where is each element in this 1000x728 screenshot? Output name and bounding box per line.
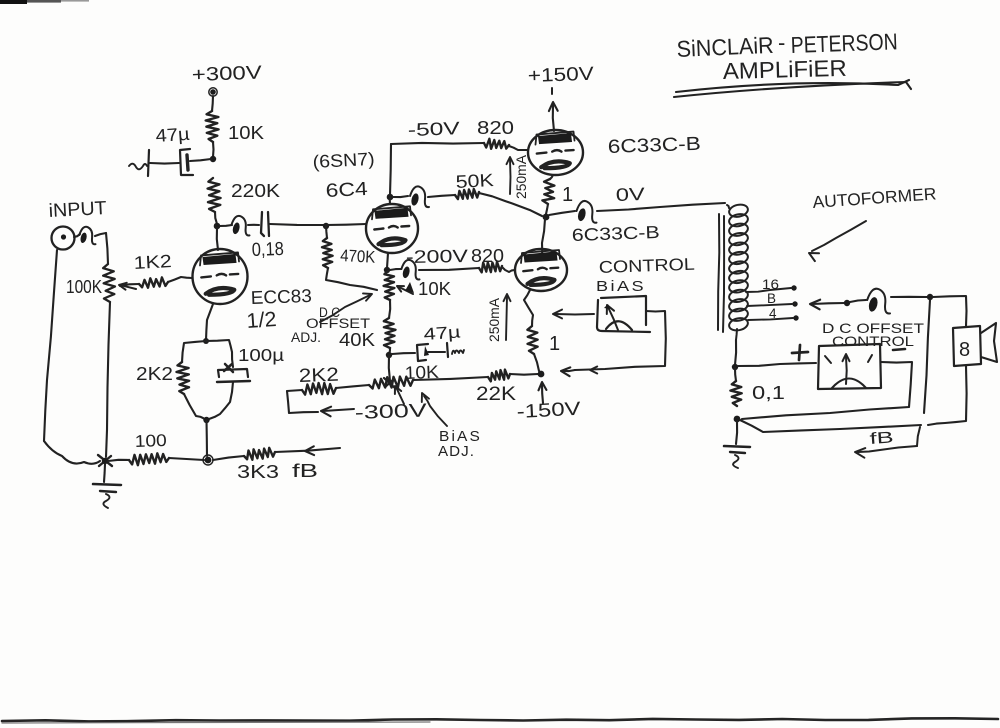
svg-text:PETERSON: PETERSON	[790, 28, 898, 58]
svg-text:AMPLiFiER: AMPLiFiER	[722, 55, 847, 84]
svg-text:1/2: 1/2	[246, 308, 278, 333]
node 6C4 anode	[387, 194, 394, 201]
junction ground bus X	[98, 455, 112, 466]
wire 22K to node	[510, 373, 538, 376]
svg-text:6C33C-B: 6C33C-B	[607, 134, 701, 158]
wire to speaker top	[933, 296, 967, 326]
wire 6C4 anode up	[389, 197, 391, 204]
svg-text:fB: fB	[869, 429, 894, 448]
wire cathode node to bus	[205, 420, 208, 456]
svg-text:iNPUT: iNPUT	[48, 198, 107, 222]
wire ECC83 cathode	[206, 304, 213, 340]
resistor 50K	[428, 195, 455, 197]
wire pot bottom to ground bus	[106, 302, 110, 457]
dc offset adj arrow	[320, 295, 370, 322]
dc box loop wire	[742, 362, 912, 419]
wire 1 to -150V node	[534, 354, 539, 371]
wire 10K to node	[212, 142, 215, 157]
meter loop wire	[575, 311, 666, 370]
autoformer coil	[728, 203, 749, 218]
svg-text:fB: fB	[292, 461, 318, 481]
tap B	[747, 304, 792, 306]
tube ECC83 V1	[193, 249, 248, 304]
wire +300V to 10K	[212, 96, 213, 111]
wire to 2K2 branch	[182, 341, 206, 362]
node speaker bus 1	[844, 300, 850, 306]
wire 40K node to bus	[389, 355, 390, 381]
svg-text:100: 100	[134, 431, 167, 451]
node 0V	[543, 214, 550, 221]
svg-text:1: 1	[549, 333, 560, 355]
dc offset control box	[818, 344, 881, 389]
tap 16	[746, 288, 791, 292]
wire 820 to lower grid	[502, 267, 515, 272]
resistor 820 lower	[479, 262, 502, 273]
node 6C4 cathode	[384, 267, 390, 273]
wire -50V rail	[391, 143, 484, 144]
plus symbol	[792, 352, 808, 353]
fB arrow right	[917, 427, 920, 446]
wire node to 3K3	[213, 456, 244, 460]
resistor 0,1	[735, 368, 736, 381]
resistor 40K	[384, 318, 396, 348]
wire 10K to 22K	[413, 377, 488, 380]
speaker box	[953, 326, 981, 366]
resistor 220K	[208, 178, 221, 212]
node cathode bottom	[203, 417, 209, 423]
svg-text:-300V: -300V	[354, 400, 427, 424]
svg-text:1: 1	[562, 184, 573, 206]
input jack J1	[52, 227, 75, 250]
potentiometer 10K bias	[369, 377, 413, 389]
potentiometer 10K dc-offset	[384, 271, 395, 300]
svg-text:250mA: 250mA	[514, 155, 529, 199]
autoformer core	[718, 214, 719, 330]
wire autoformer bottom	[735, 340, 736, 365]
wire to dc-offset box plus	[738, 363, 816, 366]
wire 470K to 10K wiper	[326, 268, 377, 290]
tube 6C33C upper V3	[528, 130, 583, 175]
svg-text:CONTROL: CONTROL	[832, 333, 914, 349]
svg-text:-50V: -50V	[407, 118, 460, 140]
control bias meter box	[597, 296, 650, 332]
scan mark bottom edge	[2, 718, 998, 721]
svg-text:8: 8	[959, 339, 970, 361]
svg-text:22K: 22K	[476, 384, 516, 405]
wire input node down to pot	[106, 233, 108, 264]
BIAS ADJ arrow	[424, 396, 447, 426]
autoformer annotation arrow	[812, 221, 866, 251]
node ECC83 anode	[214, 223, 221, 230]
wire 6C4 cathode	[387, 253, 388, 268]
wire 2K2 to 10K	[336, 385, 369, 388]
svg-text:6C33C-B: 6C33C-B	[571, 222, 660, 245]
wire 100 to node	[169, 458, 204, 460]
speaker bus wire	[850, 300, 866, 302]
node autoformer bottom	[732, 364, 738, 370]
svg-text:+150V: +150V	[527, 64, 594, 87]
scan mark top-left	[0, 0, 27, 4]
svg-text:BiAS: BiAS	[439, 429, 482, 445]
svg-text:820: 820	[477, 118, 514, 138]
+300V terminal	[210, 89, 216, 95]
tube 6C4 V2	[366, 204, 418, 253]
svg-text:220K: 220K	[231, 181, 280, 201]
svg-text:2K2: 2K2	[136, 364, 173, 384]
speaker cone	[981, 323, 997, 362]
ground symbol right	[736, 421, 737, 444]
wire anode node to tube	[217, 228, 218, 250]
junction X bias	[384, 378, 395, 388]
wire 0V rail	[549, 211, 575, 215]
speaker bus arrow	[810, 300, 820, 310]
capacitor 47u bypass	[180, 149, 193, 175]
svg-text:470K: 470K	[340, 246, 377, 267]
resistor 1 lower	[527, 326, 537, 354]
resistor 820 upper	[484, 139, 509, 149]
resistor 1 upper	[550, 175, 553, 179]
node cathode split	[203, 338, 209, 344]
wire 2K2 to bottom node	[184, 394, 205, 419]
svg-text:(6SN7): (6SN7)	[312, 149, 375, 172]
svg-text:ADJ.: ADJ.	[438, 444, 475, 460]
svg-text:16: 16	[762, 277, 779, 292]
svg-text:0V: 0V	[615, 184, 645, 205]
svg-text:250mA: 250mA	[487, 298, 502, 342]
svg-text:40K: 40K	[339, 330, 375, 350]
svg-text:100µ: 100µ	[238, 345, 284, 365]
wire jack ground down	[44, 250, 57, 441]
svg-text:10K: 10K	[418, 279, 451, 299]
250mA upper annotation	[509, 160, 512, 194]
feedback line lower	[740, 420, 921, 432]
-150V feed arrow	[542, 384, 543, 403]
svg-text:ECC83: ECC83	[250, 285, 312, 308]
svg-text:CONTROL: CONTROL	[598, 255, 695, 277]
wire 50K to 0V node	[479, 193, 542, 216]
wire 220K to anode node	[215, 212, 217, 224]
ground symbol left	[104, 464, 105, 482]
svg-text:10K: 10K	[228, 123, 264, 143]
coupling cap 0.18	[248, 224, 259, 226]
title underline	[676, 80, 909, 92]
meter arrow to tube	[556, 313, 594, 316]
svg-text:0,1: 0,1	[752, 383, 785, 403]
resistor 2K2 cathode	[177, 362, 190, 394]
resistor 1K2	[139, 277, 168, 287]
node 0,1 bottom	[734, 416, 741, 423]
wire to 0V node	[546, 204, 548, 214]
svg-text:50K: 50K	[455, 170, 494, 192]
svg-text:BiAS: BiAS	[596, 278, 646, 295]
svg-text:6C4: 6C4	[325, 179, 369, 202]
wire anode node right	[220, 225, 232, 226]
wire -300V corner	[287, 391, 318, 413]
resistor 3K3	[244, 448, 275, 460]
svg-text:47µ: 47µ	[155, 124, 190, 146]
minus symbol	[893, 349, 905, 350]
svg-text:4: 4	[769, 306, 777, 321]
wire bus2 down	[924, 300, 930, 413]
node 40K bottom	[386, 352, 392, 358]
node -150V	[538, 371, 545, 378]
svg-text:1K2: 1K2	[133, 251, 172, 273]
wire 50K from anode	[393, 196, 408, 197]
wire -200V rail	[390, 269, 401, 270]
wire 820 to 6C33C grid	[509, 146, 528, 150]
wire jack to top corner	[74, 234, 80, 237]
wire 0V node down	[542, 219, 545, 258]
svg-text:0,18: 0,18	[251, 239, 284, 261]
wire to 6C4 grid	[326, 224, 366, 225]
svg-text:B: B	[767, 291, 776, 306]
tap 4	[748, 318, 793, 320]
svg-text:47µ: 47µ	[423, 322, 461, 344]
potentiometer 100K	[103, 264, 115, 302]
svg-text:ADJ.: ADJ.	[291, 330, 321, 345]
wire 40K to node	[389, 348, 390, 354]
resistor 10K anode	[206, 111, 219, 142]
capacitor 47u second	[392, 353, 415, 354]
resistor 470K	[322, 238, 333, 268]
wire to 100u branch	[206, 340, 233, 367]
node speaker bus 2	[927, 294, 933, 300]
svg-text:OFFSET: OFFSET	[306, 316, 370, 331]
resistor 2K2 bus	[287, 390, 302, 391]
svg-text:+300V: +300V	[191, 63, 262, 86]
svg-text:100K: 100K	[66, 277, 102, 297]
resistor 100	[108, 460, 129, 461]
node 47u/220K	[210, 156, 216, 162]
svg-text:-150V: -150V	[516, 399, 581, 423]
capacitor 100u	[224, 364, 233, 372]
node grid 6C4	[323, 223, 329, 229]
svg-text:3K3: 3K3	[237, 462, 279, 482]
svg-text:-: -	[778, 30, 785, 55]
wire lower cathode	[524, 290, 533, 326]
wire speaker bottom	[928, 366, 967, 425]
node cathode-bus	[205, 457, 212, 464]
resistor 22K	[488, 370, 510, 382]
wire 3K3 fb with arrow	[275, 448, 340, 452]
wire pot to 40K	[389, 300, 390, 318]
tube 6C33C lower V4	[515, 249, 567, 291]
+150V arrow	[553, 105, 554, 131]
